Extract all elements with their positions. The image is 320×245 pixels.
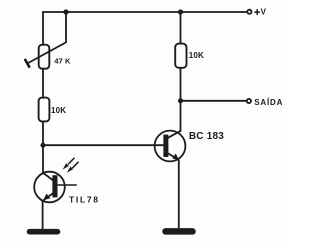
resistor R1 10K body (39, 98, 50, 122)
svg-text:TIL78: TIL78 (69, 194, 100, 204)
wire R1 to node A (42, 121, 44, 145)
wire Q1 emitter to ground (42, 200, 44, 228)
potentiometer P1 wiper diagonal (27, 13, 66, 64)
wire +V rail (43, 11, 247, 13)
phototransistor Q1 emitter arrowhead (43, 194, 50, 201)
terminal +V (247, 10, 251, 14)
wire node B down to Q2 collector (180, 101, 182, 132)
svg-text:10K: 10K (189, 51, 204, 60)
node B junction (178, 98, 183, 103)
node junction wiper on +V rail (63, 9, 68, 14)
wire left vertical from rail to potentiometer (42, 12, 44, 45)
light arrow 1 head (63, 163, 69, 169)
light arrow 1 shaft (69, 158, 75, 164)
node A junction (41, 143, 46, 148)
wire pot to R1 (42, 69, 44, 98)
terminal SAIDA (247, 99, 251, 103)
phototransistor Q1 base bar (52, 175, 57, 197)
wire rail to R2 (180, 12, 182, 44)
svg-text:V: V (261, 8, 267, 17)
wire node B to SAIDA terminal (181, 100, 247, 102)
transistor Q2 emitter arrowhead (172, 154, 179, 161)
transistor Q2 base bar (163, 135, 168, 157)
phototransistor Q1 collector line (43, 173, 54, 181)
phototransistor Q1 emitter line (44, 193, 54, 200)
ground right (166, 228, 193, 235)
phototransistor Q1 base stub (58, 184, 76, 186)
svg-text:SAÍDA: SAÍDA (254, 98, 283, 107)
ground left (30, 229, 58, 235)
node junction right resistor on +V rail (178, 9, 183, 14)
phototransistor Q1 TIL78 body circle (34, 172, 65, 203)
wire Q2 emitter to ground (178, 160, 180, 228)
transistor Q2 BC183 body circle (155, 131, 186, 162)
wire node A down to phototransistor collector (42, 145, 44, 173)
transistor Q2 emitter line (168, 153, 178, 159)
resistor R2 10K body (175, 44, 186, 68)
light arrow 2 shaft (73, 162, 79, 168)
svg-text:BC 183: BC 183 (189, 131, 224, 142)
label +V plus sign (255, 10, 260, 15)
transistor Q2 collector line (168, 131, 180, 138)
svg-text:10K: 10K (51, 106, 66, 115)
svg-text:47 K: 47 K (54, 56, 71, 65)
light arrow 2 head (67, 167, 73, 173)
potentiometer P1 47K body (39, 45, 50, 69)
potentiometer P1 wiper tick (25, 60, 29, 67)
wire node A to BC183 base (43, 144, 163, 146)
wire R2 to node B (180, 68, 182, 101)
